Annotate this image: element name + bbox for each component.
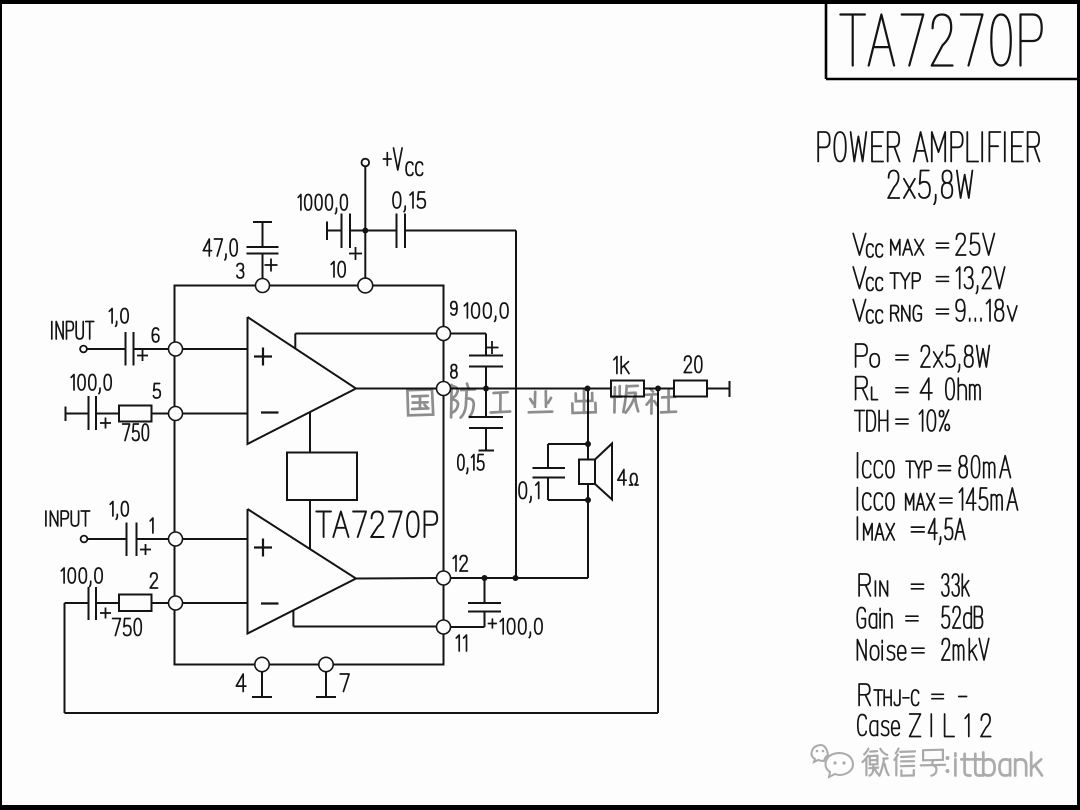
wire +Vcc vertical	[364, 167, 366, 280]
capacitor C 100,0 bottom	[484, 578, 486, 603]
resistor R 1k	[611, 381, 644, 397]
wire feedback bottom rail	[65, 712, 659, 714]
label pin 4	[236, 674, 246, 692]
wire output rail	[451, 388, 730, 390]
capacitor C 0,15 top	[366, 230, 397, 232]
label 4 Ohm	[618, 470, 626, 486]
label 1000,0	[298, 195, 347, 214]
wire input upper	[87, 348, 126, 350]
label 1,0 upper	[109, 309, 128, 327]
wire ground rail pins 4-7	[174, 664, 445, 666]
capacitor C 100,0 right	[485, 334, 487, 356]
plus of 1,0 upper	[137, 355, 148, 357]
label 0,1	[519, 482, 539, 502]
node pin 11	[437, 620, 451, 634]
spec Case ZIL12	[858, 715, 900, 736]
heading 2x5,8W	[888, 171, 972, 205]
spec RL = 4 Ohm	[856, 377, 868, 400]
spec Vcc RNG = 9...18v	[853, 300, 866, 322]
junction out-speaker	[585, 386, 591, 392]
label 100,0 right	[464, 303, 508, 321]
wire pin5 to opamp	[183, 413, 248, 415]
node pin 10	[358, 278, 373, 293]
terminal input lower	[81, 536, 88, 543]
plus of 100,0 lower-left	[100, 612, 111, 614]
label TA7270P inside	[316, 512, 437, 538]
wire IC right bus (pins 9,8,12,11)	[443, 286, 445, 665]
minus input op-amp U1a	[261, 411, 279, 413]
wechat text ittbank	[955, 753, 1042, 776]
IC body box	[287, 453, 357, 501]
spec Vcc TYP = 13,2V	[853, 267, 866, 289]
label 47,0	[203, 239, 237, 260]
wire speaker top stub	[548, 443, 588, 445]
wire op2 feedback to pin 11	[292, 611, 294, 627]
capacitor C 100,0 lower-left	[65, 602, 89, 604]
wire pin1 to opamp	[183, 538, 248, 540]
wire 750 to pin2	[152, 602, 169, 604]
label pin 1	[150, 518, 153, 533]
wire IC box to op2	[309, 500, 311, 550]
label pin 8	[451, 365, 457, 379]
node pin 2	[169, 596, 183, 610]
page border bottom	[0, 805, 1080, 810]
capacitor C 0,1	[547, 444, 549, 468]
wechat colon	[946, 756, 950, 760]
label pin 3	[237, 264, 244, 279]
wire op2 output	[356, 577, 437, 580]
wire op1 bias to IC box	[309, 412, 311, 453]
junction speaker top	[585, 441, 591, 447]
op-amp U1b triangle	[248, 509, 357, 634]
capacitor C 100,0 upper-left	[65, 407, 67, 422]
terminal +Vcc	[362, 159, 370, 167]
label pin 10	[331, 262, 345, 278]
watermark 版	[612, 386, 638, 413]
speaker LS1	[579, 460, 595, 485]
junction pin8-cap	[483, 386, 489, 392]
junction pin12-cap	[482, 575, 488, 581]
label 1k	[614, 357, 629, 374]
wire top rail pins 3-10	[174, 285, 445, 287]
plus of 100,0 upper-left	[100, 422, 111, 424]
capacitor C 0,15 lower	[485, 389, 487, 418]
label 750 upper	[123, 424, 149, 441]
page border right	[1077, 0, 1080, 810]
capacitor C 1,0 lower	[126, 523, 128, 557]
watermark 国	[407, 389, 433, 415]
wire pin6 to opamp	[183, 348, 248, 350]
label 100,0 upper-left	[71, 375, 111, 394]
wire pin9 right	[451, 333, 487, 335]
node pin 6	[169, 342, 183, 356]
wire IC left bus (pins 6,5,1,2)	[174, 286, 176, 665]
label INPUT lower	[46, 511, 90, 526]
junction speaker bottom	[585, 497, 591, 503]
watermark 防	[451, 384, 475, 418]
wire pin11 right	[451, 626, 485, 628]
label 100,0 lower-left	[61, 568, 102, 587]
page border top	[0, 0, 1080, 4]
spec Rthj-c = -	[859, 684, 870, 706]
watermark 业	[529, 391, 552, 412]
node pin 1	[169, 532, 183, 546]
junction pin12-c015	[513, 575, 519, 581]
label pin 11	[456, 635, 466, 651]
minus input op-amp U1b	[261, 602, 279, 604]
wire feedback right vertical	[657, 389, 659, 714]
spec Rin = 33k	[859, 574, 870, 596]
node pin 9	[437, 327, 451, 341]
plus input op-amp U1a	[254, 355, 272, 357]
watermark 出	[572, 390, 595, 413]
wire speaker bottom stub	[548, 499, 588, 501]
node pin 5	[169, 407, 183, 421]
title text TA7270P	[840, 15, 1041, 66]
label pin 5	[153, 384, 160, 399]
wire op1 output	[356, 388, 437, 390]
label 0,15 lower	[458, 455, 484, 474]
watermark 工	[491, 392, 510, 412]
ground at pin 7	[325, 672, 327, 697]
wire pin12 right	[451, 577, 589, 579]
label pin 2	[150, 573, 157, 588]
label pin 9	[451, 302, 457, 316]
label +100,0	[488, 619, 496, 628]
label 750 lower	[113, 619, 142, 636]
spec Po = 2x5,8W	[856, 344, 868, 367]
junction out-feedback	[655, 386, 661, 392]
wire pin2 to opamp	[183, 602, 248, 604]
node pin 8	[437, 382, 451, 396]
plus input op-amp U1b	[254, 546, 272, 548]
wechat text 微信号	[863, 749, 889, 776]
capacitor C 47,0	[253, 221, 272, 223]
wire 0,15 to node 12 vertical	[515, 231, 517, 579]
capacitor C 1000,0	[326, 222, 328, 241]
spec Imax = 4,5A	[856, 517, 858, 540]
page border left	[0, 0, 2, 810]
label INPUT upper	[52, 322, 94, 340]
spec Icco MAX = 145mA	[856, 488, 858, 511]
terminal output bar	[729, 381, 731, 397]
label +Vcc	[383, 148, 402, 170]
junction node Vcc-caps	[362, 228, 368, 234]
op-amp U1a triangle	[248, 317, 357, 444]
ground at pin 4	[261, 672, 263, 697]
spec TDH = 10%	[855, 411, 888, 432]
wire input lower	[88, 538, 127, 540]
terminal input upper	[80, 346, 87, 353]
watermark 社	[645, 389, 676, 414]
plus of 1000,0	[349, 253, 362, 255]
label pin 6	[152, 328, 159, 342]
label 1,0 lower	[110, 502, 128, 520]
spec Icco TYP = 80mA	[857, 453, 859, 478]
resistor R 750 lower	[119, 595, 152, 612]
label pin 12	[453, 556, 467, 572]
label 0,15 top	[393, 192, 425, 212]
label pin 7	[340, 674, 349, 692]
spec Vcc MAX = 25V	[853, 234, 866, 256]
resistor R 20	[674, 381, 707, 397]
heading POWER AMPLIFIER	[818, 132, 1039, 162]
resistor R 750 upper	[119, 406, 152, 422]
title box	[826, 3, 1080, 79]
spec Noise = 2mkV	[857, 640, 905, 661]
wire feedback left vertical	[64, 603, 66, 713]
plus of 100,0 right	[486, 347, 499, 349]
node pin 7	[319, 657, 333, 671]
spec Gain = 52dB	[857, 608, 892, 629]
node pin 4	[255, 657, 269, 671]
wire speaker vertical	[587, 389, 589, 579]
node pin 3	[256, 279, 270, 293]
wechat icon	[811, 745, 828, 762]
node pin 12	[437, 571, 451, 585]
wire op1 feedback to pin 9	[294, 334, 296, 349]
plus of 47,0	[265, 264, 278, 266]
plus of 1,0 lower	[140, 549, 151, 551]
label 20	[684, 356, 702, 373]
capacitor C 1,0 upper	[125, 332, 127, 366]
wire 750 to pin5	[152, 413, 169, 415]
